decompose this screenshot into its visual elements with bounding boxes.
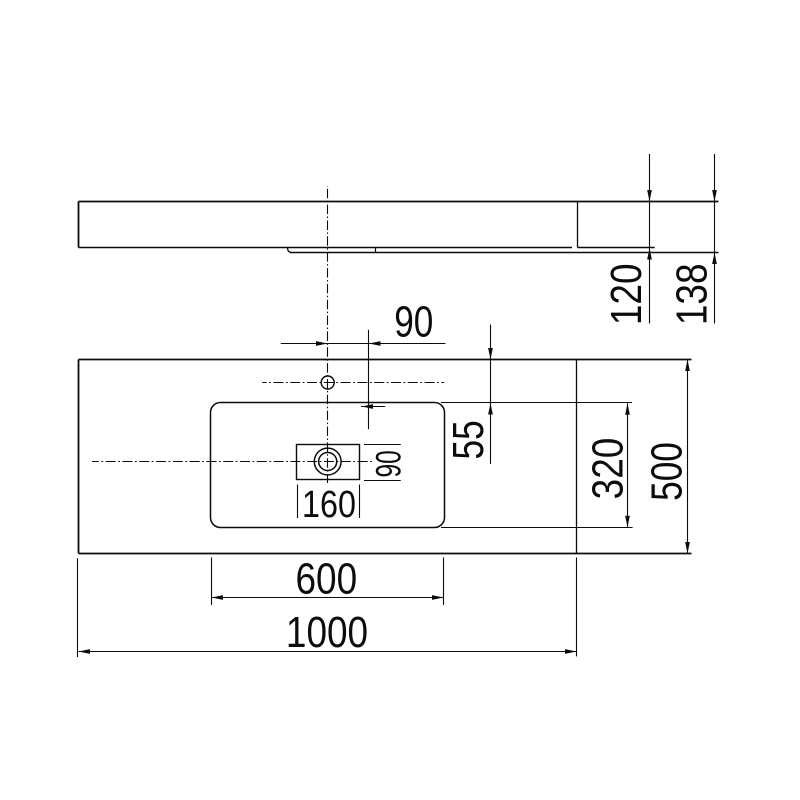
dimension 600 left extension — [211, 558, 213, 606]
side view lower bottom edge — [290, 252, 719, 254]
drain rectangle — [297, 445, 360, 480]
dimension 600 line and arrows — [212, 595, 444, 600]
svg-text:90: 90 — [394, 298, 433, 347]
side view divider joint line — [577, 202, 579, 248]
plan view divider joint line — [576, 360, 578, 554]
rotated dimension text 90 — [370, 450, 408, 477]
basin top extension line — [441, 402, 632, 404]
dimension 1000 left extension — [77, 558, 79, 657]
svg-text:1000: 1000 — [286, 607, 368, 657]
basin bottom extension line — [441, 527, 633, 529]
basin rounded rectangle — [211, 403, 445, 528]
faucet hole — [321, 376, 334, 389]
side view tick at x=375 — [375, 248, 377, 253]
side view mid bottom edge — [79, 247, 573, 249]
dimension text 320 — [582, 438, 632, 500]
dimension 500 line and arrows — [685, 360, 690, 554]
plan view top edge — [79, 359, 692, 361]
drain outer circle — [314, 448, 341, 475]
main horizontal centerline — [92, 461, 373, 463]
side view top edge — [79, 201, 719, 203]
svg-text:320: 320 — [582, 438, 632, 500]
dimension text 55 — [445, 420, 494, 459]
small reference arrow at basin edge level — [361, 404, 385, 409]
dimension text 120 — [601, 263, 651, 325]
dimension 90 line with outside arrows — [281, 341, 446, 346]
side view left edge — [78, 202, 80, 248]
dimension 1000 line and arrows — [79, 649, 577, 654]
svg-text:160: 160 — [302, 484, 356, 526]
dimension 600 right extension — [443, 558, 445, 606]
drain inner circle — [319, 452, 337, 470]
svg-text:90: 90 — [370, 450, 408, 477]
dimension 138 line and arrows — [712, 154, 717, 324]
dimension 1000 right extension — [576, 558, 578, 657]
dimension 320 line and arrows — [625, 403, 630, 527]
faucet horizontal centerline — [262, 382, 444, 384]
dimension text 138 — [667, 263, 717, 325]
dimension 160 left tick — [297, 485, 299, 519]
dimension 55 line with outside arrows — [488, 325, 493, 464]
rotated dimension 90 top extension — [364, 444, 401, 446]
svg-text:138: 138 — [667, 263, 717, 325]
vertical centerline through faucet axis — [327, 186, 329, 483]
dimension 160 right tick — [359, 485, 361, 519]
side view step-down at x=287 — [288, 248, 293, 253]
svg-text:55: 55 — [445, 420, 494, 459]
svg-text:600: 600 — [295, 553, 357, 603]
dimension text 500 — [643, 442, 692, 501]
svg-text:500: 500 — [643, 442, 692, 501]
plan view bottom edge — [79, 553, 692, 555]
rotated dimension 90 bottom extension — [364, 480, 401, 482]
dimension 120 line and arrows — [647, 154, 652, 324]
svg-text:120: 120 — [601, 263, 651, 325]
plan view left edge — [78, 360, 80, 554]
dimension 90 extension line — [368, 330, 370, 429]
